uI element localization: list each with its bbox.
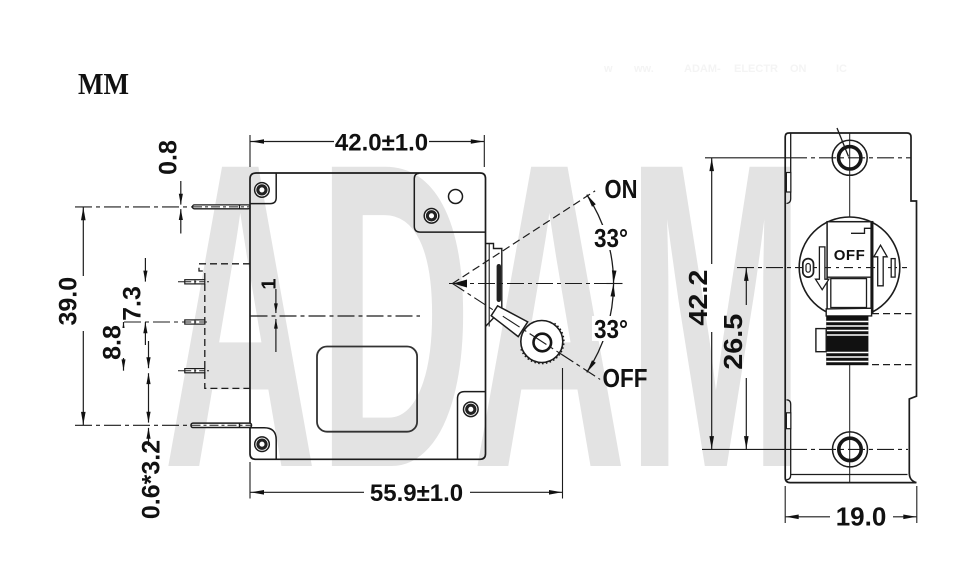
svg-text:19.0: 19.0 — [836, 502, 887, 532]
faint header text — [603, 63, 847, 75]
bottom-left boss plate — [250, 428, 276, 460]
projection dashes from knob — [872, 313, 912, 315]
svg-text:w: w — [603, 63, 613, 75]
pin 2 centerline — [124, 321, 209, 323]
knob knurled body (black) — [826, 316, 868, 365]
knob collar — [826, 308, 871, 316]
svg-text:ADAM-: ADAM- — [684, 63, 721, 75]
toggle bezel side view — [486, 244, 502, 327]
dim 8.8 — [123, 322, 125, 371]
icon down arrow — [816, 247, 829, 290]
centerline overlay on blades and pins — [193, 206, 250, 208]
knob left tab — [816, 329, 826, 352]
svg-text:MM: MM — [78, 66, 129, 101]
dim 42.0 extension lines — [249, 135, 251, 167]
svg-text:0.8: 0.8 — [155, 140, 183, 175]
dim 0.8 — [180, 181, 182, 205]
right view: circle centerline — [737, 267, 908, 269]
svg-text:42.2: 42.2 — [683, 270, 713, 326]
rocker lower flap line — [827, 276, 872, 278]
body back plate outline — [250, 173, 486, 459]
right view: top hole centerline — [705, 157, 790, 159]
svg-text:ww.: ww. — [633, 63, 654, 75]
rocker frame — [827, 222, 873, 313]
icon I (on) — [891, 259, 895, 278]
svg-text:26.5: 26.5 — [718, 314, 748, 370]
pin 2 — [185, 320, 205, 324]
pin 1 — [185, 280, 205, 284]
arc arrows at centerline — [612, 270, 617, 283]
lever knob serration (right/bottom edge) — [521, 324, 563, 364]
dim 42.0 line — [251, 141, 335, 143]
dim 19.0 extension lines — [784, 486, 786, 523]
rocker frame right edge (thick) — [870, 222, 873, 313]
svg-text:0.6*3.2: 0.6*3.2 — [138, 440, 166, 519]
bottom-right boss plate — [458, 392, 486, 460]
terminal centerline top (39.0 extension) — [75, 206, 250, 208]
dim 42.2 — [711, 158, 713, 264]
dim 19.0 line — [786, 516, 830, 518]
watermark ADAM — [163, 73, 805, 559]
toggle bezel circle front — [799, 217, 900, 318]
case seam centerline — [251, 315, 421, 317]
svg-text:ELECTR: ELECTR — [734, 63, 778, 75]
svg-text:33°: 33° — [594, 314, 628, 344]
svg-text:IC: IC — [836, 63, 847, 75]
lever knob hole — [534, 334, 552, 352]
dim 39.0 line — [82, 207, 84, 276]
terminal blade top — [193, 205, 251, 209]
icon up arrow — [874, 245, 887, 286]
lever axis over knob — [503, 316, 579, 365]
arc arrow near ON — [587, 195, 596, 207]
right view: vertical centerline — [849, 133, 851, 222]
svg-text:8.8: 8.8 — [99, 325, 127, 360]
circle centerline inside bezel — [800, 267, 908, 269]
dim 7.3 — [144, 258, 146, 282]
label recess rounded rect — [317, 347, 417, 432]
rocker lower recess — [831, 279, 867, 308]
panel mounting hole bottom — [833, 432, 868, 467]
latch detail upper — [786, 173, 790, 193]
svg-text:1: 1 — [259, 278, 281, 289]
svg-text:7.3: 7.3 — [119, 286, 147, 321]
terminal blade bottom — [191, 423, 252, 427]
rocker parting notch — [851, 228, 871, 233]
mounting hole bottom-right — [464, 402, 479, 417]
pin 3 — [185, 369, 205, 373]
inner rib top-left — [787, 133, 791, 204]
svg-text:42.0±1.0: 42.0±1.0 — [335, 130, 428, 157]
dim 55.9 extension lines — [249, 462, 251, 499]
latch detail lower — [786, 413, 790, 429]
svg-text:OFF: OFF — [834, 247, 866, 264]
terminal centerline bottom (39.0 extension) — [75, 424, 252, 426]
pin 3 centerline — [178, 370, 209, 372]
arc arrow near OFF — [587, 360, 596, 372]
toggle slot (dark) — [497, 264, 501, 302]
icon O (off) — [803, 259, 814, 278]
inner rib bottom-left — [787, 400, 791, 480]
ON position axis (dashed) — [453, 191, 596, 284]
svg-text:33°: 33° — [594, 223, 628, 253]
right view body outline — [785, 133, 916, 483]
top-left boss plate — [250, 173, 276, 204]
lever shaft — [491, 306, 528, 337]
dim 55.9 line — [251, 491, 365, 493]
pin 1 centerline — [178, 281, 209, 283]
lever knob — [521, 321, 563, 363]
dim 0.6x3.2 arrows at pin3 and bottom terminal — [148, 341, 150, 368]
leader line into top hole — [837, 128, 849, 157]
dashed mounting bracket — [199, 264, 250, 389]
inner bottom line — [791, 474, 908, 476]
svg-text:OFF: OFF — [603, 363, 648, 393]
dim 26.5 — [745, 268, 747, 305]
right view: bottom hole centerline — [702, 448, 790, 450]
OFF position axis (dash-dot) — [453, 284, 601, 380]
mounting hole bottom-left — [255, 437, 270, 452]
top-right boss plate — [414, 173, 485, 232]
panel mounting hole top — [832, 140, 867, 175]
svg-text:55.9±1.0: 55.9±1.0 — [370, 480, 463, 507]
plain hole top-right — [449, 190, 463, 204]
svg-text:39.0: 39.0 — [55, 277, 83, 326]
dim 1 (seam offset) — [275, 289, 277, 313]
mounting hole top-right — [424, 209, 439, 224]
swing arc — [587, 195, 614, 373]
horizontal centerline of lever pivot — [449, 283, 622, 285]
svg-text:ON: ON — [790, 63, 807, 75]
mounting hole top-left — [255, 183, 270, 198]
svg-text:ON: ON — [605, 174, 638, 204]
apex arrowhead — [453, 280, 467, 288]
